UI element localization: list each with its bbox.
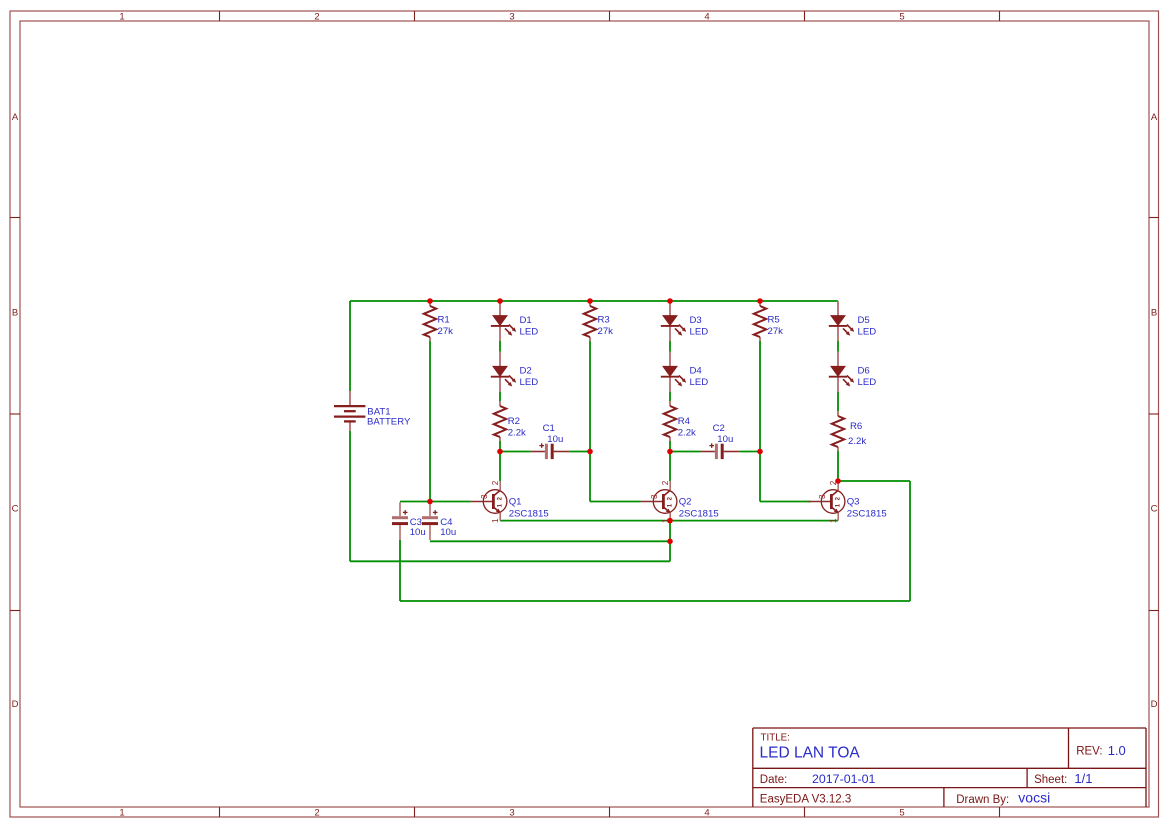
battery BAT1 bbox=[334, 391, 411, 431]
wire bbox=[500, 451, 531, 453]
svg-text:D: D bbox=[12, 699, 19, 710]
svg-text:R5: R5 bbox=[768, 314, 780, 325]
title block lines bbox=[753, 728, 1146, 807]
LED D4 bbox=[661, 352, 708, 392]
svg-text:Q1: Q1 bbox=[509, 497, 522, 508]
junction bbox=[667, 298, 673, 304]
wire bbox=[590, 501, 641, 503]
wire bbox=[669, 521, 671, 562]
wire bbox=[589, 341, 591, 502]
wire bbox=[759, 341, 761, 502]
svg-text:2: 2 bbox=[661, 480, 670, 485]
wire bbox=[499, 452, 501, 482]
svg-text:3: 3 bbox=[480, 494, 489, 499]
resistor R6 bbox=[832, 411, 867, 451]
wire bbox=[349, 431, 351, 561]
svg-text:1: 1 bbox=[835, 503, 841, 507]
svg-text:Date:: Date: bbox=[760, 774, 788, 786]
wire bbox=[400, 600, 910, 602]
svg-text:10u: 10u bbox=[547, 434, 563, 445]
junction bbox=[427, 298, 433, 304]
svg-text:D4: D4 bbox=[690, 366, 703, 377]
svg-text:D1: D1 bbox=[520, 315, 532, 326]
resistor R3 bbox=[584, 301, 613, 341]
svg-text:D2: D2 bbox=[520, 366, 532, 377]
junction bbox=[757, 298, 763, 304]
svg-text:2.2k: 2.2k bbox=[848, 436, 866, 447]
svg-text:3: 3 bbox=[509, 12, 514, 23]
LED D1 bbox=[491, 301, 538, 341]
svg-text:2.2k: 2.2k bbox=[678, 427, 696, 438]
wire bbox=[760, 501, 811, 503]
svg-text:27k: 27k bbox=[438, 326, 454, 337]
svg-text:C: C bbox=[1151, 503, 1158, 514]
svg-text:D3: D3 bbox=[690, 315, 702, 326]
svg-text:D5: D5 bbox=[858, 315, 870, 326]
junction bbox=[835, 478, 841, 484]
svg-text:2: 2 bbox=[314, 808, 319, 819]
junction bbox=[497, 449, 503, 455]
LED D5 bbox=[829, 301, 876, 341]
svg-text:3: 3 bbox=[818, 494, 827, 499]
junction bbox=[667, 539, 673, 545]
svg-text:2SC1815: 2SC1815 bbox=[847, 509, 887, 520]
wire bbox=[669, 452, 671, 482]
svg-text:1: 1 bbox=[119, 808, 124, 819]
LED D3 bbox=[661, 301, 708, 341]
svg-text:LED: LED bbox=[690, 377, 709, 388]
wire bbox=[569, 451, 590, 453]
wire bbox=[499, 441, 501, 452]
LED D2 bbox=[491, 352, 538, 392]
junction bbox=[587, 298, 593, 304]
svg-text:10u: 10u bbox=[440, 527, 456, 538]
svg-text:Sheet:: Sheet: bbox=[1034, 774, 1067, 786]
capacitor C1 bbox=[531, 423, 570, 459]
wire bbox=[837, 392, 839, 411]
svg-text:D: D bbox=[1151, 699, 1158, 710]
svg-text:2: 2 bbox=[314, 12, 319, 23]
wire bbox=[500, 520, 838, 522]
svg-text:27k: 27k bbox=[768, 326, 784, 337]
svg-text:2.2k: 2.2k bbox=[508, 427, 526, 438]
wire bbox=[429, 341, 431, 502]
wire bbox=[837, 451, 839, 481]
wire bbox=[430, 540, 670, 542]
svg-text:LED: LED bbox=[858, 326, 877, 337]
svg-text:4: 4 bbox=[704, 12, 709, 23]
svg-text:2017-01-01: 2017-01-01 bbox=[812, 772, 875, 786]
wire bbox=[499, 341, 501, 352]
svg-text:10u: 10u bbox=[410, 527, 426, 538]
svg-text:C: C bbox=[12, 503, 19, 514]
svg-text:LED: LED bbox=[520, 377, 539, 388]
capacitor C4 bbox=[422, 502, 456, 540]
svg-text:R3: R3 bbox=[598, 314, 610, 325]
wire bbox=[669, 392, 671, 401]
svg-text:5: 5 bbox=[899, 12, 904, 23]
wire bbox=[399, 540, 401, 601]
svg-text:R4: R4 bbox=[678, 416, 691, 427]
svg-text:Drawn By:: Drawn By: bbox=[956, 794, 1009, 806]
svg-text:A: A bbox=[12, 112, 19, 123]
svg-text:1: 1 bbox=[829, 518, 838, 523]
svg-text:2: 2 bbox=[836, 496, 842, 500]
svg-text:BATTERY: BATTERY bbox=[367, 417, 411, 428]
wire bbox=[350, 300, 838, 302]
svg-text:D6: D6 bbox=[858, 366, 870, 377]
transistor Q1 bbox=[471, 480, 549, 523]
resistor R4 bbox=[664, 401, 696, 441]
LED D6 bbox=[829, 352, 876, 392]
resistor R1 bbox=[424, 301, 453, 341]
wire bbox=[670, 451, 701, 453]
wire bbox=[350, 560, 670, 562]
svg-text:5: 5 bbox=[899, 808, 904, 819]
wire bbox=[669, 441, 671, 452]
svg-text:Q3: Q3 bbox=[847, 497, 860, 508]
transistor Q3 bbox=[809, 480, 887, 523]
resistor R5 bbox=[754, 301, 783, 341]
wire bbox=[838, 480, 910, 482]
svg-text:LED: LED bbox=[690, 326, 709, 337]
svg-text:LED LAN TOA: LED LAN TOA bbox=[760, 745, 861, 762]
svg-text:LED: LED bbox=[520, 326, 539, 337]
svg-text:27k: 27k bbox=[598, 326, 614, 337]
wire bbox=[349, 301, 351, 391]
svg-text:TITLE:: TITLE: bbox=[761, 733, 790, 744]
svg-text:A: A bbox=[1151, 112, 1158, 123]
svg-text:1.0: 1.0 bbox=[1108, 743, 1126, 758]
svg-text:2: 2 bbox=[491, 480, 500, 485]
junction bbox=[587, 449, 593, 455]
wire bbox=[909, 481, 911, 601]
junction bbox=[667, 449, 673, 455]
svg-text:4: 4 bbox=[704, 808, 709, 819]
svg-text:R6: R6 bbox=[850, 421, 862, 432]
capacitor C3 bbox=[392, 502, 426, 540]
wire bbox=[400, 501, 471, 503]
junction bbox=[497, 298, 503, 304]
capacitor C2 bbox=[701, 423, 740, 459]
svg-text:Q2: Q2 bbox=[679, 497, 692, 508]
svg-text:LED: LED bbox=[858, 377, 877, 388]
title block text bbox=[760, 733, 1126, 807]
transistor Q2 bbox=[641, 480, 719, 523]
wire bbox=[837, 341, 839, 352]
svg-text:3: 3 bbox=[509, 808, 514, 819]
svg-text:1: 1 bbox=[667, 503, 673, 507]
svg-text:C2: C2 bbox=[713, 423, 725, 434]
svg-text:10u: 10u bbox=[717, 434, 733, 445]
svg-text:B: B bbox=[12, 308, 18, 319]
wire bbox=[499, 392, 501, 401]
svg-text:REV:: REV: bbox=[1076, 746, 1102, 758]
svg-text:2SC1815: 2SC1815 bbox=[679, 509, 719, 520]
wire bbox=[669, 341, 671, 352]
svg-text:1/1: 1/1 bbox=[1074, 771, 1092, 786]
svg-text:1: 1 bbox=[497, 503, 503, 507]
svg-text:1: 1 bbox=[491, 518, 500, 523]
svg-text:2SC1815: 2SC1815 bbox=[509, 509, 549, 520]
svg-text:R1: R1 bbox=[438, 314, 450, 325]
junction bbox=[667, 518, 673, 524]
resistor R2 bbox=[494, 401, 526, 441]
svg-text:2: 2 bbox=[668, 496, 674, 500]
svg-text:B: B bbox=[1151, 308, 1157, 319]
junction bbox=[757, 449, 763, 455]
svg-text:3: 3 bbox=[650, 494, 659, 499]
wire bbox=[739, 451, 760, 453]
svg-text:vocsi: vocsi bbox=[1018, 790, 1050, 806]
junction bbox=[427, 499, 433, 505]
svg-text:C1: C1 bbox=[543, 423, 555, 434]
svg-text:EasyEDA V3.12.3: EasyEDA V3.12.3 bbox=[760, 794, 851, 806]
svg-text:1: 1 bbox=[119, 12, 124, 23]
svg-text:2: 2 bbox=[498, 496, 504, 500]
svg-text:R2: R2 bbox=[508, 416, 520, 427]
